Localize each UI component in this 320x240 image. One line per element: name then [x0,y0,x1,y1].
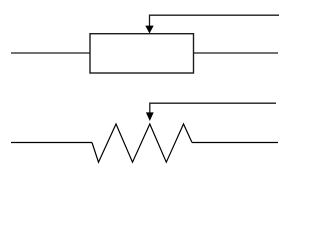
wire: wiper lead of zigzag potentiometer (up then right) [150,103,276,113]
resistor element of potentiometer (ANSI zigzag) [92,124,192,162]
potentiometer body (IEC box symbol) [90,34,194,73]
wiper arrow of zigzag potentiometer [146,112,154,121]
wiper arrow of box potentiometer [145,26,153,34]
wire: right lead of zigzag potentiometer [192,142,278,144]
wire: right lead of box potentiometer [194,52,279,54]
wire: left lead of box potentiometer [11,52,90,54]
wire: left lead of zigzag potentiometer [11,142,92,144]
wire: wiper lead of box potentiometer (up then right) [150,15,280,26]
